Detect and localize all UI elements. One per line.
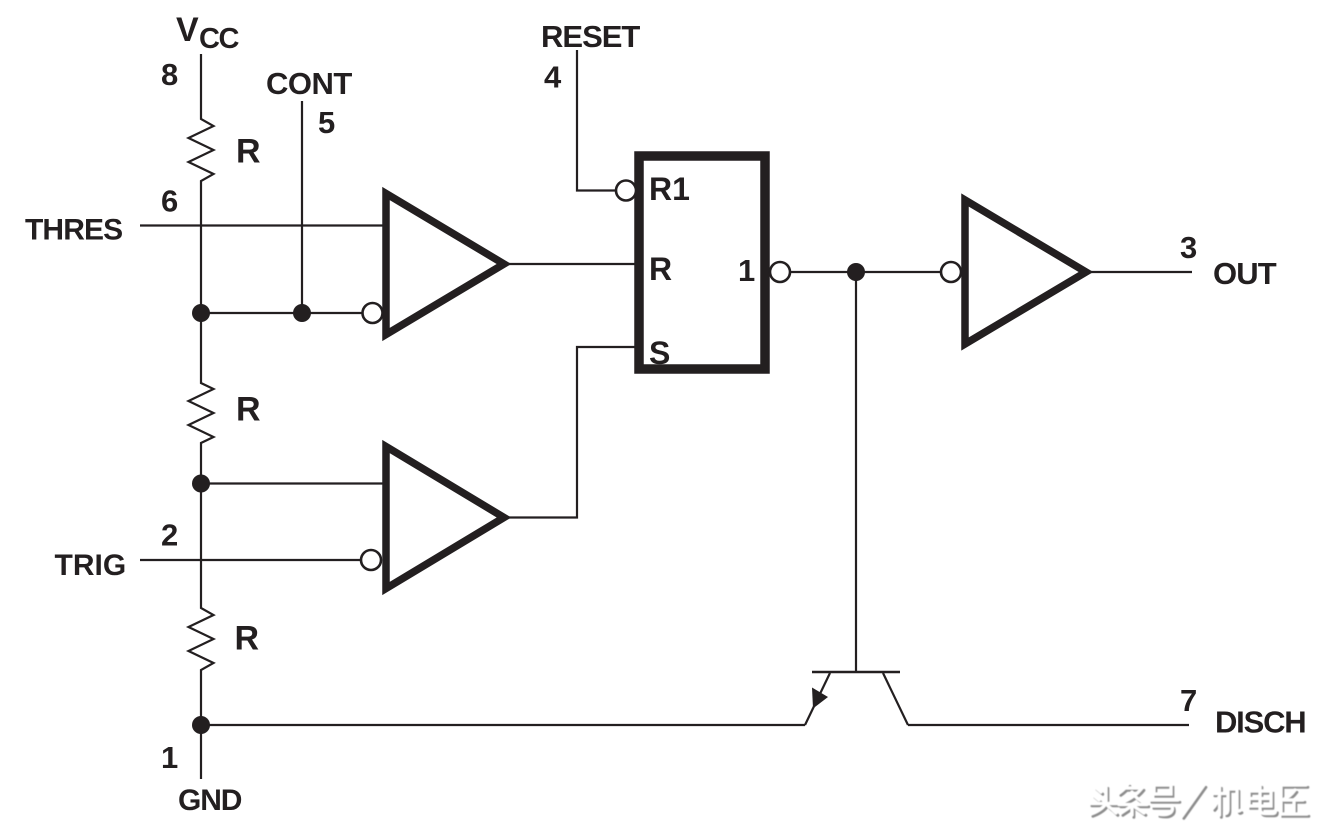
svg-text:2: 2 <box>161 518 178 553</box>
svg-text:R: R <box>235 620 260 658</box>
svg-text:7: 7 <box>1180 683 1197 718</box>
svg-text:OUT: OUT <box>1213 256 1277 291</box>
svg-text:4: 4 <box>544 60 562 95</box>
svg-text:R: R <box>236 133 261 171</box>
svg-text:CONT: CONT <box>266 66 352 101</box>
svg-text:GND: GND <box>178 784 242 817</box>
svg-text:R: R <box>649 251 672 287</box>
svg-text:V: V <box>176 11 199 49</box>
svg-text:R: R <box>236 391 261 429</box>
svg-text:1: 1 <box>161 740 178 775</box>
svg-text:5: 5 <box>318 105 335 140</box>
svg-text:RESET: RESET <box>541 19 640 54</box>
svg-text:TRIG: TRIG <box>55 549 127 582</box>
svg-text:R1: R1 <box>649 171 690 207</box>
svg-text:DISCH: DISCH <box>1215 705 1305 740</box>
svg-text:S: S <box>649 335 670 371</box>
svg-text:6: 6 <box>161 184 178 219</box>
svg-text:CC: CC <box>199 23 239 55</box>
svg-text:1: 1 <box>738 253 755 288</box>
svg-text:8: 8 <box>161 57 178 92</box>
svg-text:3: 3 <box>1180 230 1197 265</box>
svg-text:THRES: THRES <box>25 214 122 247</box>
